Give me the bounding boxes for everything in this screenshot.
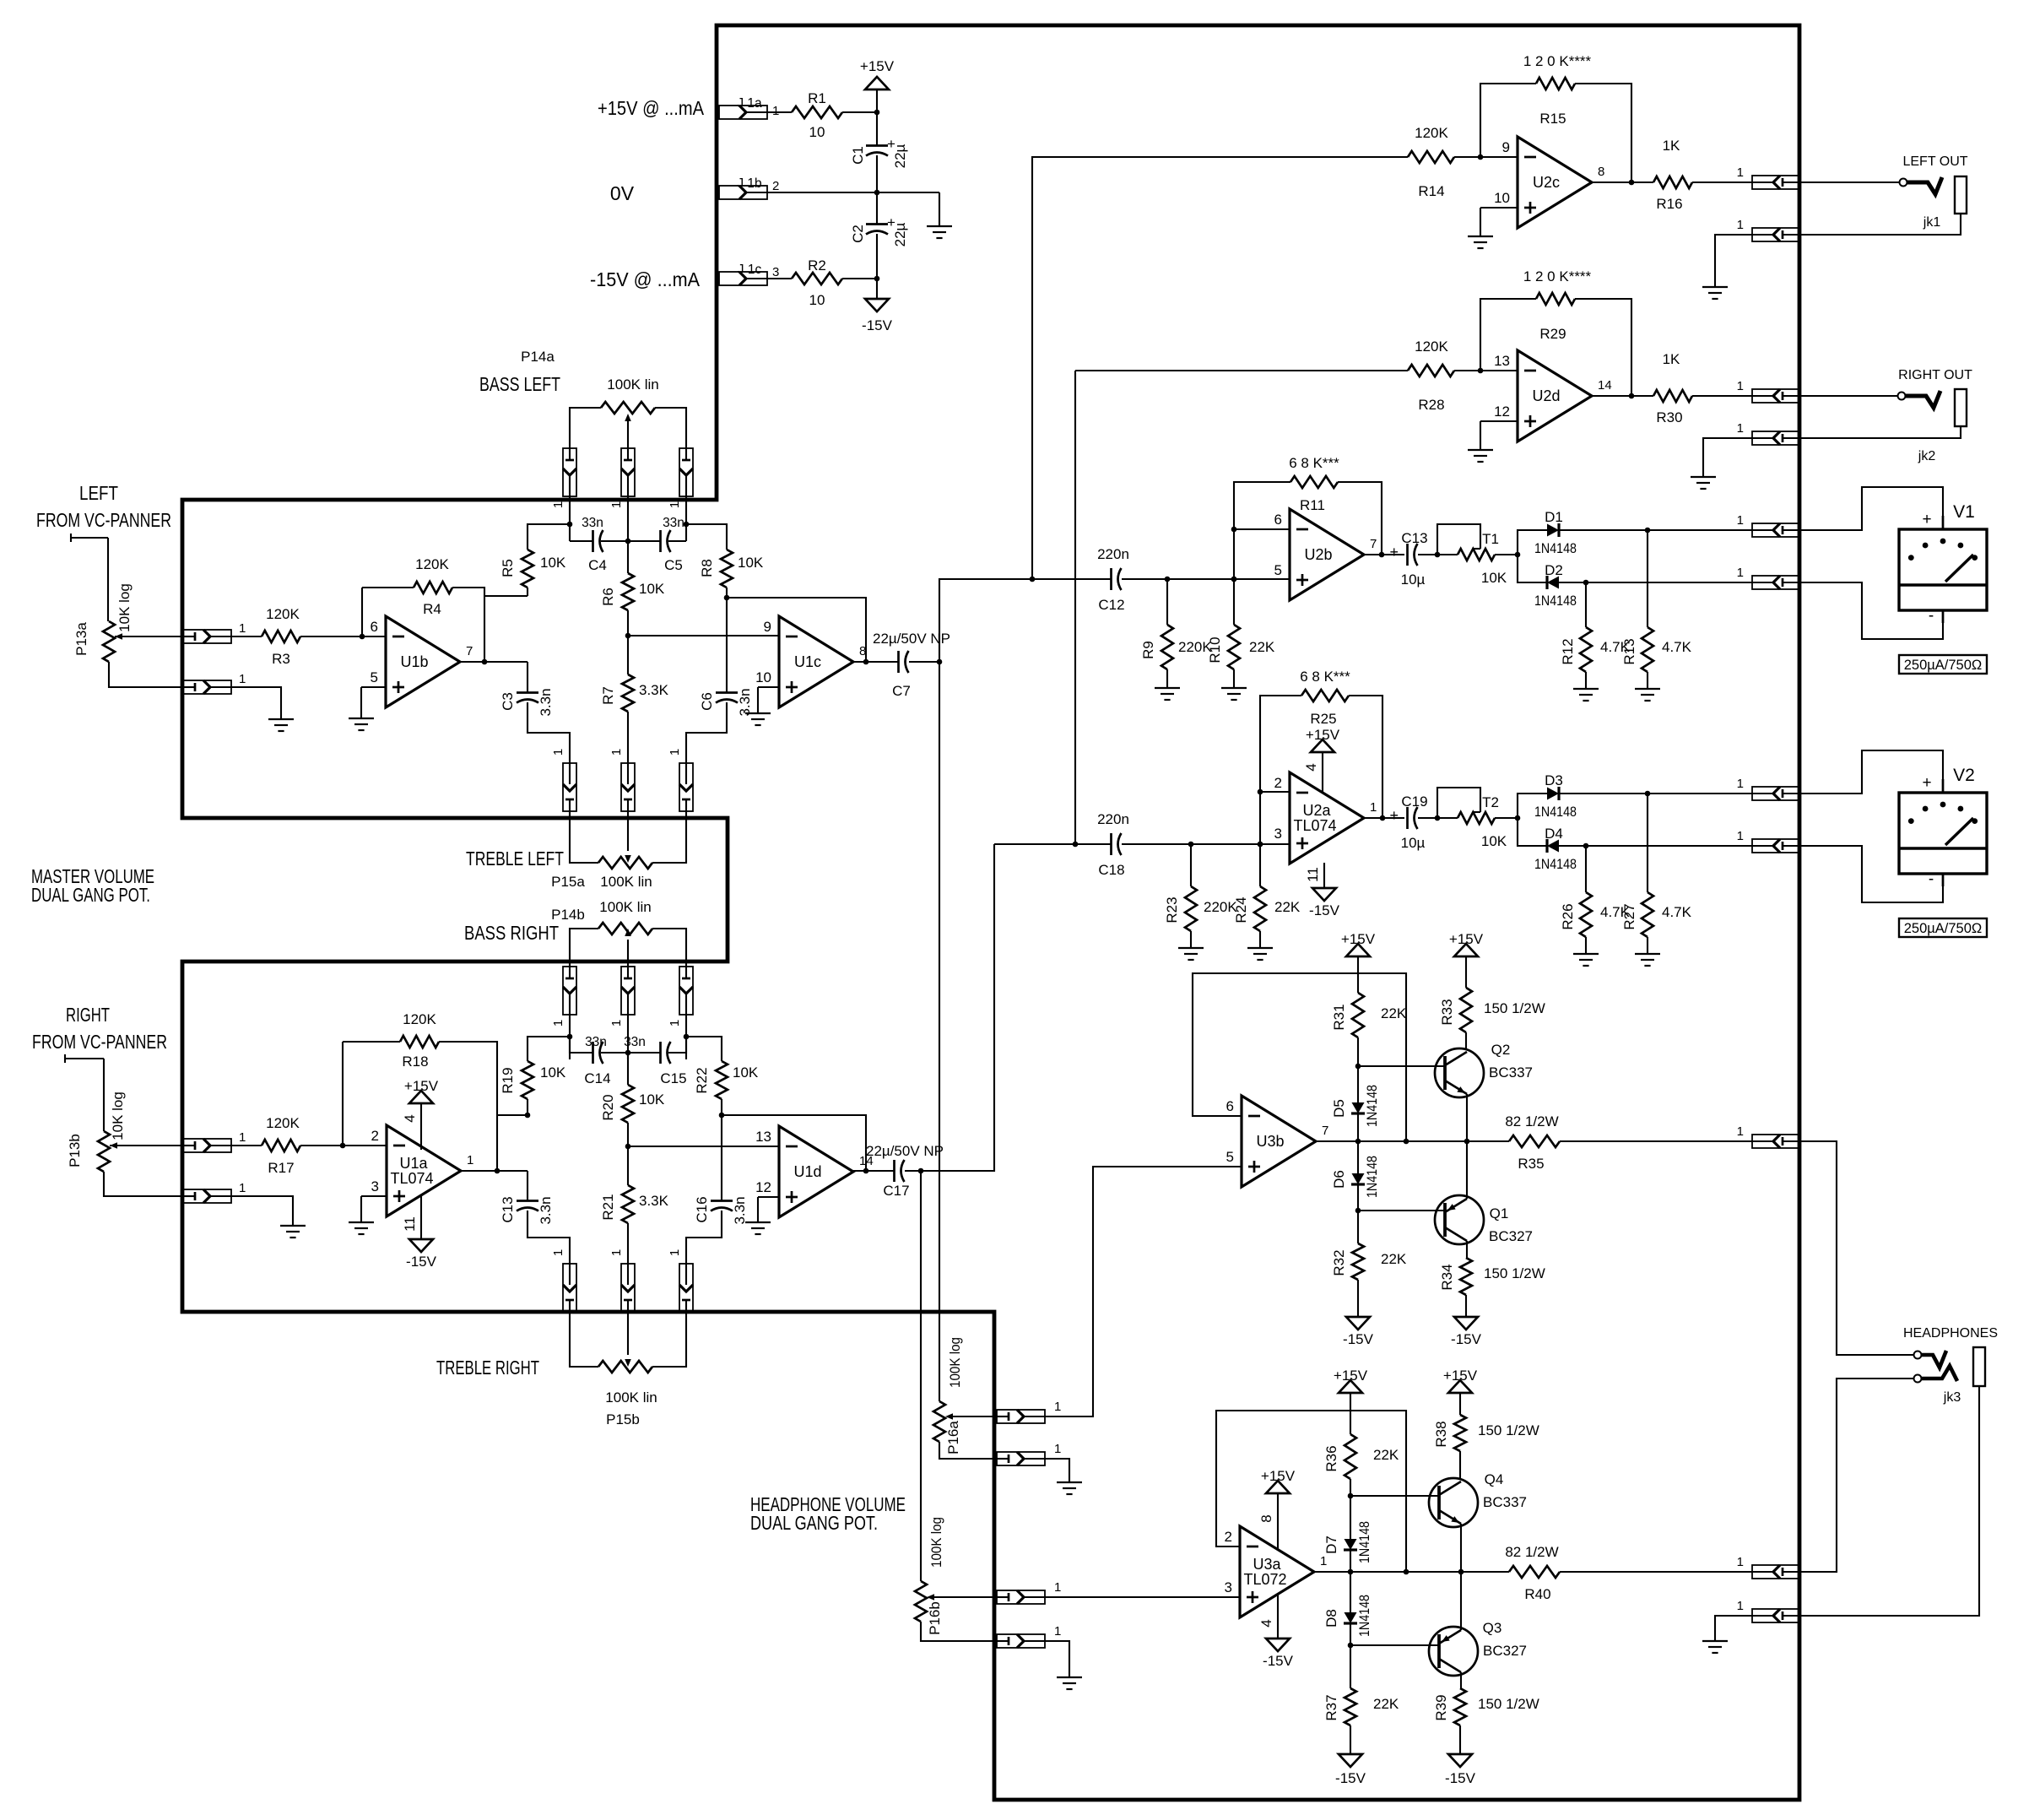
wire U1d output <box>853 1170 894 1172</box>
wire node L riser and line <box>939 579 1032 662</box>
label jk2 <box>1918 449 1936 463</box>
op-amp U3b <box>1226 1096 1329 1187</box>
svg-text:1: 1 <box>551 501 565 508</box>
capacitor C3 <box>500 688 554 716</box>
svg-text:RIGHT: RIGHT <box>66 1004 110 1026</box>
svg-text:10K: 10K <box>639 581 665 597</box>
node U2c pin9 <box>1478 154 1484 160</box>
svg-text:10K: 10K <box>540 555 566 571</box>
svg-text:+: + <box>1922 511 1931 528</box>
wire C18 to R23 node <box>1122 843 1191 845</box>
node 0V junction <box>874 190 880 196</box>
wire R30 to connector <box>1692 395 1752 397</box>
wire T1 leads <box>1437 554 1518 555</box>
resistor R33 <box>1439 988 1545 1032</box>
svg-text:1: 1 <box>239 672 246 686</box>
wire stub to P13b <box>103 1059 105 1131</box>
wire R11 to output <box>1338 482 1382 555</box>
svg-text:7: 7 <box>466 644 473 658</box>
wire Q1 collector to R34 <box>1466 1241 1468 1258</box>
wire +15V node to C1 <box>876 112 878 146</box>
node R after C17 <box>918 1168 924 1174</box>
diode D6 <box>1331 1156 1380 1198</box>
svg-text:P16b: P16b <box>927 1601 943 1635</box>
svg-text:10K: 10K <box>1481 570 1507 586</box>
node Q3 base <box>1348 1643 1354 1649</box>
svg-text:R11: R11 <box>1300 497 1325 513</box>
board outline border <box>182 25 1799 1800</box>
svg-text:1: 1 <box>239 621 246 636</box>
ground R26 <box>1573 954 1599 966</box>
svg-text:R37: R37 <box>1323 1694 1339 1720</box>
wire R23 leads <box>1190 844 1192 948</box>
wire U2a output to C19 <box>1364 817 1404 819</box>
svg-text:120K: 120K <box>266 1115 300 1131</box>
ground left input <box>268 719 294 731</box>
connector P14a left pin <box>551 448 576 508</box>
resistor R9 <box>1140 625 1212 669</box>
transistor Q2 <box>1435 1042 1533 1097</box>
wire P16a bottom <box>939 1442 997 1459</box>
connector treble right A pin <box>551 1249 576 1312</box>
svg-text:1: 1 <box>772 104 779 118</box>
ground R23 <box>1178 948 1204 960</box>
wire C15 row <box>628 1037 686 1053</box>
wire R26 leads <box>1585 846 1587 954</box>
capacitor C5 <box>661 516 684 573</box>
svg-text:10K log: 10K log <box>116 583 133 632</box>
svg-text:U2a: U2a <box>1302 802 1331 819</box>
resistor R12 <box>1560 627 1631 672</box>
wire R19 bottom <box>527 1099 528 1115</box>
ground jk1 sleeve <box>1702 287 1728 299</box>
left input stub <box>71 534 108 542</box>
svg-text:R38: R38 <box>1433 1421 1449 1447</box>
wire node A to R5 <box>528 524 570 550</box>
svg-text:1: 1 <box>1737 829 1744 843</box>
wire R13 leads <box>1647 530 1648 689</box>
svg-text:TREBLE RIGHT: TREBLE RIGHT <box>436 1357 539 1379</box>
svg-text:3: 3 <box>1274 826 1282 842</box>
svg-text:R26: R26 <box>1560 903 1576 929</box>
svg-text:C12: C12 <box>1098 597 1124 613</box>
svg-text:3.3K: 3.3K <box>639 1193 669 1209</box>
svg-text:6 8 K***: 6 8 K*** <box>1300 669 1350 685</box>
power +15V R33 <box>1449 931 1484 988</box>
ground R13 <box>1635 689 1660 701</box>
wire jk3 sleeve to ground <box>1715 1616 1752 1641</box>
wire Q3 collector to R39 <box>1460 1672 1462 1688</box>
svg-text:R10: R10 <box>1207 636 1223 663</box>
node R24 top <box>1258 842 1263 848</box>
wire R7 top <box>627 636 629 674</box>
label MASTER VOLUME <box>31 865 154 887</box>
connector P13a wiper pin <box>183 621 246 643</box>
svg-text:Q3: Q3 <box>1483 1620 1502 1636</box>
svg-text:22K: 22K <box>1249 639 1275 655</box>
wire D4 to connector <box>1559 845 1752 847</box>
svg-text:1: 1 <box>668 501 682 508</box>
wire P16a to U3b pin5 <box>1045 1167 1242 1416</box>
jack jk2 body <box>1955 389 1967 426</box>
wire P13b bottom <box>104 1172 183 1196</box>
wire C7 to node L <box>909 661 939 663</box>
wire C6 top <box>726 598 728 693</box>
resistor R5 <box>500 550 566 596</box>
svg-text:R16: R16 <box>1656 196 1682 212</box>
power -15V for U1a <box>402 1196 437 1270</box>
wire connector to ground (right input) <box>231 1196 293 1226</box>
svg-text:1: 1 <box>551 1249 565 1256</box>
label DUAL GANG POT (master) <box>31 884 150 906</box>
resistor R21 <box>600 1185 669 1223</box>
resistor R39 <box>1433 1688 1539 1725</box>
connector headphone left pin <box>1737 1124 1800 1148</box>
power -15V R39 <box>1445 1725 1476 1786</box>
svg-text:R1: R1 <box>808 90 826 106</box>
wire U2b output to C13 <box>1364 554 1404 555</box>
node +15V junction <box>874 110 880 116</box>
wire pin6 to U2b <box>1234 528 1290 530</box>
connector P14a right pin <box>668 448 693 508</box>
connector J1c <box>719 263 779 285</box>
meter V1 rating label <box>1899 655 1987 674</box>
wire Q1 base <box>1358 1210 1445 1211</box>
svg-text:R27: R27 <box>1621 903 1637 929</box>
svg-text:1: 1 <box>1737 165 1744 180</box>
capacitor C1 <box>850 136 908 168</box>
svg-text:1: 1 <box>1737 1124 1744 1139</box>
capacitor C2 <box>850 214 908 246</box>
wire output node to D8 <box>1350 1572 1351 1612</box>
wire P14a right terminal <box>655 408 686 448</box>
svg-text:TL074: TL074 <box>1293 817 1336 834</box>
connector jk2 sleeve pin <box>1737 421 1800 445</box>
diode D8 <box>1323 1595 1372 1637</box>
trimmer T1 <box>1437 524 1507 586</box>
wire P16b bottom <box>921 1622 997 1641</box>
svg-text:1: 1 <box>551 1020 565 1026</box>
ground R10 <box>1221 688 1247 700</box>
svg-text:250µA/750Ω: 250µA/750Ω <box>1904 921 1983 936</box>
svg-text:R7: R7 <box>600 686 616 705</box>
svg-text:R19: R19 <box>500 1067 516 1093</box>
resistor R26 <box>1560 892 1631 937</box>
svg-text:1: 1 <box>609 749 624 756</box>
diode D5 <box>1331 1085 1380 1127</box>
label BASS RIGHT <box>464 922 559 944</box>
wire R8 to node D <box>726 588 728 598</box>
connector P13b cold pin <box>183 1181 246 1203</box>
svg-text:U1a: U1a <box>399 1155 428 1172</box>
svg-text:4: 4 <box>402 1114 418 1122</box>
power -15V R37 <box>1335 1725 1366 1786</box>
resistor R38 <box>1433 1415 1539 1451</box>
capacitor C18 <box>1097 811 1129 878</box>
wire Q2 emitter to rail <box>1466 1094 1468 1141</box>
wire Q3 base <box>1350 1644 1439 1646</box>
node bass left B <box>684 522 690 528</box>
ground U1d pin12 <box>745 1222 771 1234</box>
svg-text:TL072: TL072 <box>1243 1571 1286 1588</box>
wire P13a wiper to connector <box>115 636 183 637</box>
svg-text:R4: R4 <box>423 601 441 617</box>
node R27 top <box>1645 791 1651 797</box>
svg-text:100K lin: 100K lin <box>605 1389 657 1406</box>
svg-text:10K: 10K <box>733 1064 759 1081</box>
svg-text:J 1a: J 1a <box>737 96 762 111</box>
svg-text:C13: C13 <box>1401 530 1427 546</box>
svg-text:P16a: P16a <box>945 1421 961 1454</box>
svg-text:R28: R28 <box>1418 397 1444 413</box>
wire U2c pin10 ground <box>1480 208 1518 236</box>
capacitor C19 <box>1389 794 1427 851</box>
op-amp U2b <box>1274 509 1377 600</box>
wire node to D5 <box>1357 1066 1359 1102</box>
svg-text:R5: R5 <box>500 559 516 577</box>
svg-text:C13: C13 <box>500 1196 516 1222</box>
power -15V symbol <box>862 279 893 333</box>
label DUAL GANG POT (headphone) <box>750 1512 878 1534</box>
svg-text:J 1b: J 1b <box>737 176 761 191</box>
wire V2 plus <box>1800 750 1943 794</box>
wire connector to R17 <box>231 1145 262 1146</box>
ground jk3 sleeve <box>1702 1641 1728 1653</box>
wire U1c output <box>853 661 898 663</box>
wire P14a right pin into board <box>685 496 687 541</box>
wire R15 riser left <box>1480 84 1536 157</box>
wire R18 node branch to R19 <box>497 1114 528 1116</box>
wire R17 to U1a node <box>300 1042 343 1146</box>
svg-text:C6: C6 <box>699 692 715 711</box>
ground U2d pin12 <box>1468 450 1493 462</box>
node R10 top <box>1231 577 1237 582</box>
svg-text:5: 5 <box>371 669 378 685</box>
svg-text:10: 10 <box>809 292 825 308</box>
svg-text:1: 1 <box>1054 1442 1061 1456</box>
wire stub to P13a <box>107 538 109 621</box>
svg-text:12: 12 <box>755 1179 771 1195</box>
svg-text:-: - <box>1929 607 1934 625</box>
capacitor C16 <box>694 1196 748 1224</box>
node R12 top <box>1583 580 1589 586</box>
wire R21 top <box>627 1146 629 1185</box>
svg-text:R40: R40 <box>1524 1586 1550 1602</box>
svg-text:3.3n: 3.3n <box>538 688 554 716</box>
wire U2d pin12 ground <box>1480 421 1518 450</box>
power -15V R34 <box>1451 1295 1482 1347</box>
svg-text:1N4148: 1N4148 <box>1534 593 1577 609</box>
svg-text:150 1/2W: 150 1/2W <box>1478 1696 1539 1712</box>
svg-text:11: 11 <box>1305 867 1321 882</box>
wire C19 to T2 <box>1418 817 1437 819</box>
wire R4 left lead <box>362 587 414 588</box>
connector P13a cold pin <box>183 672 246 694</box>
svg-text:33n: 33n <box>582 516 603 530</box>
svg-text:R3: R3 <box>272 651 290 667</box>
svg-text:1N4148: 1N4148 <box>1534 804 1577 820</box>
node R28 riser bottom <box>1073 842 1079 848</box>
wire R35 to connector <box>1560 1140 1752 1142</box>
svg-text:R36: R36 <box>1323 1445 1339 1471</box>
svg-text:TL074: TL074 <box>390 1170 433 1187</box>
svg-text:+15V: +15V <box>1306 727 1340 743</box>
svg-text:2: 2 <box>1274 775 1282 791</box>
label LEFT <box>79 482 118 504</box>
svg-text:120K: 120K <box>266 606 300 622</box>
wire treble left pot wiring <box>570 811 686 863</box>
svg-text:7: 7 <box>1322 1124 1328 1138</box>
potentiometer P16a <box>933 1337 963 1454</box>
node U3a out D column <box>1348 1569 1354 1575</box>
resistor R15 <box>1523 53 1592 127</box>
svg-text:T1: T1 <box>1482 531 1499 547</box>
svg-text:100K log: 100K log <box>947 1337 963 1388</box>
svg-text:+: + <box>1922 774 1931 792</box>
svg-text:6: 6 <box>371 619 378 635</box>
wire jk3 ring feed <box>1800 1379 1914 1572</box>
connector V1 plus pin <box>1737 513 1800 537</box>
wire node to R37 <box>1350 1645 1351 1688</box>
wire P16a wiper <box>949 1416 997 1417</box>
potentiometer P13a <box>73 583 133 662</box>
svg-text:10K: 10K <box>639 1091 665 1108</box>
node U3a feedback output <box>1404 1569 1409 1575</box>
wire R15 to output <box>1575 84 1631 182</box>
svg-text:1: 1 <box>609 501 624 508</box>
connector headphone right pin <box>1737 1555 1800 1579</box>
resistor R14 <box>1408 125 1454 199</box>
diode D4 <box>1534 826 1577 872</box>
wire pin2 to U2a <box>1260 791 1290 793</box>
node U1a output <box>495 1168 500 1174</box>
svg-text:C15: C15 <box>660 1070 686 1086</box>
potentiometer P14a <box>521 349 659 421</box>
svg-text:R2: R2 <box>808 257 826 274</box>
wire R36 to node <box>1350 1479 1351 1496</box>
connector P16a wiper pin <box>997 1400 1061 1423</box>
svg-text:R32: R32 <box>1331 1249 1347 1276</box>
svg-text:6: 6 <box>1274 512 1282 528</box>
label TREBLE LEFT <box>466 848 564 869</box>
capacitor C13 10u <box>1389 530 1427 588</box>
wire riser to R28 <box>1075 371 1408 844</box>
node U1b pin6 <box>360 634 365 640</box>
wire output node to D6 <box>1357 1141 1359 1173</box>
node tone mid left <box>625 633 631 639</box>
wire U1c pin10 to ground <box>758 687 779 713</box>
svg-text:1N4148: 1N4148 <box>1356 1595 1372 1637</box>
svg-text:V1: V1 <box>1953 502 1975 522</box>
svg-text:1: 1 <box>1737 421 1744 436</box>
svg-text:BC337: BC337 <box>1489 1064 1533 1081</box>
trimmer T2 <box>1437 788 1507 849</box>
resistor R30 <box>1653 351 1692 425</box>
wire P14a left pin into board <box>569 496 571 541</box>
node -15V junction <box>874 276 880 282</box>
svg-text:U2c: U2c <box>1533 174 1560 191</box>
node R11 pin6 tap <box>1231 527 1237 533</box>
svg-text:1: 1 <box>1737 513 1744 528</box>
svg-text:-15V: -15V <box>1335 1770 1366 1786</box>
wire U3b output <box>1316 1140 1509 1142</box>
op-amp U3a <box>1225 1526 1328 1617</box>
svg-text:R24: R24 <box>1233 896 1249 923</box>
svg-text:1: 1 <box>668 749 682 756</box>
svg-text:HEADPHONES: HEADPHONES <box>1903 1326 1998 1341</box>
wire P16b top to node R <box>920 1171 922 1581</box>
wire U2d output to R30 <box>1592 395 1653 397</box>
svg-text:10: 10 <box>809 124 825 140</box>
op-amp U1a <box>371 1125 474 1216</box>
node R13 top <box>1645 528 1651 534</box>
connector P14a wiper pin <box>609 448 635 508</box>
svg-text:5: 5 <box>1274 562 1282 578</box>
diode D1 <box>1534 509 1577 556</box>
wire jk1 sleeve to ground <box>1715 235 1752 287</box>
node U1b output <box>482 659 488 665</box>
svg-text:D4: D4 <box>1545 826 1563 842</box>
svg-text:BC337: BC337 <box>1483 1494 1527 1510</box>
svg-text:R13: R13 <box>1621 638 1637 664</box>
node U2c output <box>1629 180 1635 186</box>
capacitor C13 right <box>500 1196 554 1224</box>
wire R12 leads <box>1585 582 1587 689</box>
svg-text:120K: 120K <box>415 556 449 572</box>
wire T2 leads <box>1437 817 1518 819</box>
svg-text:C7: C7 <box>892 683 911 699</box>
op-amp U2a <box>1274 772 1377 864</box>
wire U3a feedback <box>1216 1411 1406 1572</box>
wire treble right pot wiring <box>570 1312 686 1367</box>
svg-text:V2: V2 <box>1953 766 1975 785</box>
power +15V R36 <box>1334 1368 1368 1434</box>
svg-text:P13b: P13b <box>67 1134 83 1167</box>
wire P14a wiper <box>627 420 629 448</box>
wire R25 to output <box>1349 696 1382 818</box>
resistor R10 <box>1207 625 1275 669</box>
wire P13b wiper to connector <box>110 1145 183 1146</box>
svg-text:1: 1 <box>1320 1554 1327 1568</box>
svg-text:D8: D8 <box>1323 1609 1339 1628</box>
wire node C2 to U1d pin13 <box>628 1146 779 1147</box>
connector left out pin <box>1737 165 1800 189</box>
connector V1 minus pin <box>1737 566 1800 589</box>
svg-text:9: 9 <box>1502 139 1510 155</box>
node R25 riser bottom <box>1258 842 1263 848</box>
svg-text:150 1/2W: 150 1/2W <box>1484 1265 1545 1281</box>
svg-text:FROM VC-PANNER: FROM VC-PANNER <box>32 1031 167 1053</box>
svg-text:1: 1 <box>1737 218 1744 232</box>
svg-text:U1b: U1b <box>400 653 428 670</box>
svg-text:10µ: 10µ <box>1401 571 1426 588</box>
wire to jk2 tip <box>1800 395 1897 397</box>
wire R33 to Q2 collector <box>1465 1032 1467 1048</box>
svg-text:+15V: +15V <box>1261 1468 1296 1484</box>
wire R31 to node <box>1357 1037 1359 1066</box>
wire jk2 sleeve <box>1800 426 1961 438</box>
wire C6 bottom <box>686 702 727 764</box>
ground R9 <box>1155 688 1180 700</box>
capacitor C14 <box>584 1035 610 1086</box>
resistor R17 <box>262 1115 300 1176</box>
wire jk1 sleeve <box>1800 214 1961 235</box>
power +15V for U1a <box>402 1078 439 1150</box>
wire R29 to output <box>1575 299 1631 396</box>
resistor R22 <box>694 1061 759 1099</box>
svg-text:3: 3 <box>1225 1579 1232 1595</box>
wire D1 to connector <box>1559 529 1752 531</box>
